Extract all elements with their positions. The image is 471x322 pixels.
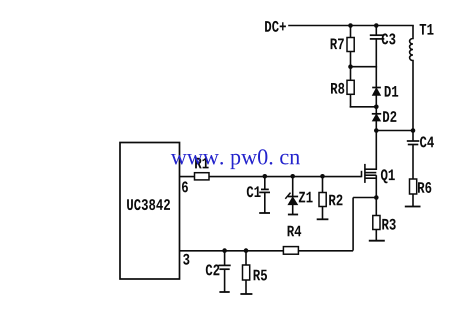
pin 6 label	[182, 181, 188, 192]
wire R8 bottom horizontal	[351, 106, 377, 108]
label UC3842	[127, 199, 170, 210]
pin 3 label	[183, 254, 189, 265]
wire Q1 source to R3 node	[353, 197, 376, 199]
resistor R3	[373, 198, 396, 241]
transformer T1 primary winding	[410, 26, 413, 131]
ground under R6	[405, 206, 421, 208]
junction C1 top	[263, 174, 268, 179]
wire pin3 rail	[180, 250, 354, 252]
resistor R7	[331, 38, 355, 52]
wire pin6 to Q1 gate	[180, 176, 362, 178]
junction drain node left	[374, 128, 379, 133]
junction Q1 source / R3 top	[374, 195, 379, 200]
wire drain node horizontal to C4/T1	[376, 130, 413, 132]
label C3	[382, 33, 396, 44]
capacitor C4	[407, 131, 434, 180]
wire R7-R8 junction horizontal	[351, 66, 377, 68]
junction R8/D1/D2 node	[374, 105, 379, 110]
ground under R3	[369, 240, 385, 242]
resistor R1	[195, 158, 210, 180]
junction R5 top on pin3 rail	[244, 248, 249, 253]
diode D1	[372, 86, 398, 97]
junction C2 top on pin3 rail	[222, 248, 227, 253]
wire R7/C3 branch vertical	[350, 26, 352, 67]
junction R2 top	[320, 174, 325, 179]
zener Z1	[285, 176, 312, 214]
capacitor C1	[247, 176, 270, 213]
resistor R8	[331, 80, 354, 94]
wire R8 branch vertical	[350, 67, 352, 107]
transistor Q1 (MOSFET)	[362, 164, 377, 198]
UC3842 IC body	[120, 143, 180, 280]
capacitor C3	[370, 35, 385, 39]
capacitor C2	[206, 251, 231, 292]
junction C3 top on DC+ rail	[374, 23, 379, 28]
resistor R2	[317, 176, 343, 219]
wire C3 top lead	[375, 26, 377, 36]
diode D2	[372, 111, 397, 122]
resistor R5	[240, 251, 267, 294]
junction drain node at T1/C4	[411, 128, 416, 133]
wire top rail from DC+ to T1	[289, 25, 413, 27]
junction Z1 top	[290, 174, 295, 179]
resistor R6	[410, 179, 432, 207]
resistor R4	[283, 226, 301, 255]
junction R7/R8 node	[348, 64, 353, 69]
label T1	[420, 24, 434, 35]
wire snubber vertical to Q1 drain	[375, 39, 377, 169]
wire R3 node down-left to pin3 rail	[352, 198, 354, 251]
label Q1	[381, 169, 395, 183]
junction R7 top on DC+ rail	[348, 23, 353, 28]
label DC+	[265, 21, 286, 32]
watermark www.pw0.cn	[171, 149, 300, 169]
